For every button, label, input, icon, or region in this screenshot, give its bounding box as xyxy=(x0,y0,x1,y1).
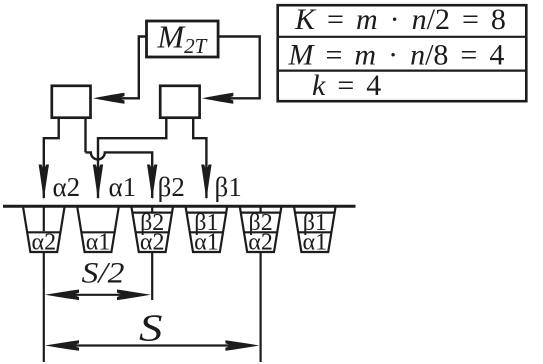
svg-text:α2: α2 xyxy=(140,229,165,255)
svg-text:α2: α2 xyxy=(32,229,57,255)
svg-text:k = 4: k = 4 xyxy=(312,69,381,102)
svg-text:α1: α1 xyxy=(86,229,111,255)
svg-text:α1: α1 xyxy=(303,229,328,255)
svg-text:α2: α2 xyxy=(248,229,273,255)
svg-text:K = m · n/2 = 8: K = m · n/2 = 8 xyxy=(294,3,506,36)
svg-text:α1: α1 xyxy=(109,172,137,202)
svg-text:β2: β2 xyxy=(158,172,185,202)
svg-text:S: S xyxy=(139,308,163,350)
svg-text:M = m · n/8 = 4: M = m · n/8 = 4 xyxy=(288,39,505,72)
svg-text:β1: β1 xyxy=(215,172,242,202)
svg-text:S/2: S/2 xyxy=(82,257,125,290)
svg-text:α1: α1 xyxy=(194,229,219,255)
svg-text:α2: α2 xyxy=(53,172,81,202)
svg-text:M2T: M2T xyxy=(157,19,208,59)
